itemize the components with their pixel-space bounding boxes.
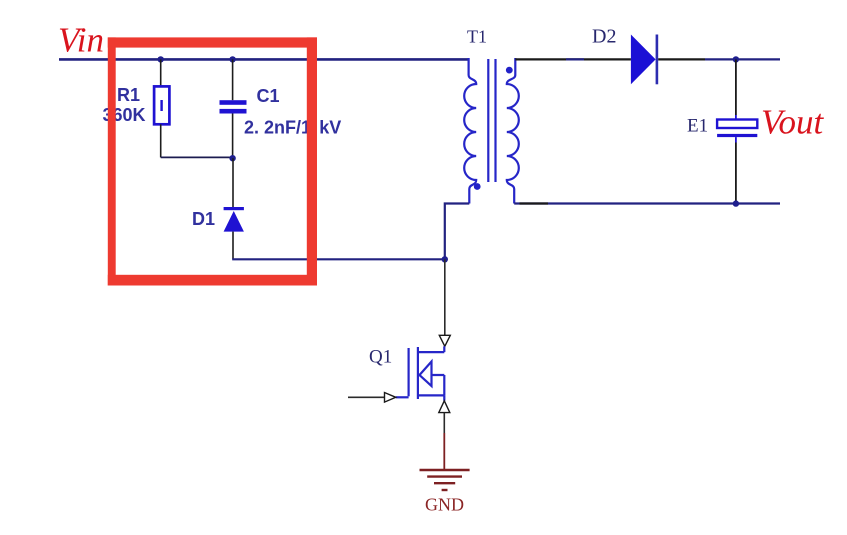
svg-text:D1: D1 — [192, 209, 215, 229]
wire: C1 top lead — [232, 59, 234, 100]
capacitor E1 — [717, 120, 757, 138]
resistor R1 — [154, 86, 169, 124]
wire: Vin top rail from left to transformer primary — [59, 58, 469, 61]
wire: R1 bottom lead — [160, 124, 162, 157]
wire: snubber bottom rail to drain node — [232, 258, 445, 260]
node: snubber mid node (R1/C1/D1) — [229, 155, 235, 161]
wire: R1 bottom to C1 bottom node — [161, 156, 233, 158]
node: output top node — [733, 56, 739, 62]
svg-text:Vout: Vout — [761, 103, 825, 142]
arrow: gate lead arrowhead (right) — [385, 393, 396, 403]
transformer T1 primary winding — [464, 58, 476, 204]
wire: C1 bottom lead — [232, 114, 234, 159]
wire: E1 bottom lead — [735, 137, 737, 142]
wire: output node down to E1 — [735, 59, 737, 115]
svg-text:T1: T1 — [467, 27, 487, 47]
svg-text:GND: GND — [425, 495, 464, 515]
transformer T1 secondary phase dot — [506, 67, 513, 74]
wire: secondary top to D2 anode — [515, 58, 631, 60]
wire: R1 top lead — [160, 59, 162, 86]
transformer T1 primary phase dot — [474, 183, 481, 190]
capacitor C1 — [220, 100, 247, 113]
svg-text:C1: C1 — [257, 86, 280, 106]
svg-text:R1: R1 — [117, 85, 140, 105]
node: drain node — [442, 256, 448, 262]
svg-text:Vin: Vin — [58, 21, 104, 60]
wire: D2 cathode to output node — [658, 58, 705, 60]
svg-text:2. 2nF/1: 2. 2nF/1 — [244, 118, 311, 138]
diode D1 — [224, 207, 244, 232]
wire: gate lead — [348, 396, 385, 398]
wire: D1 cathode lead — [232, 158, 234, 207]
diode D2 — [631, 35, 658, 85]
wire: primary bottom to drain vertical — [445, 204, 470, 260]
wire: D1 anode lead down — [232, 232, 234, 260]
transformer T1 core lines — [487, 59, 489, 182]
wire: source lead to ground — [443, 413, 445, 433]
transformer T1 secondary winding — [507, 58, 519, 204]
node: output bottom node — [733, 200, 739, 206]
highlight box (red rectangle around snubber) — [108, 37, 317, 285]
arrow: drain lead arrowhead (down) — [439, 335, 450, 346]
node: R1 top node — [158, 56, 164, 62]
wire: drain node down to Q1 drain arrow — [444, 259, 446, 335]
svg-text:D2: D2 — [592, 26, 616, 48]
arrow: source lead arrowhead (up) — [439, 401, 450, 413]
ground GND symbol — [420, 470, 470, 490]
svg-text:kV: kV — [319, 118, 341, 138]
transistor Q1 (N-MOSFET) — [396, 346, 445, 401]
wire: bottom output rail — [514, 202, 780, 204]
svg-text:Q1: Q1 — [369, 347, 392, 368]
node: C1 top node — [229, 56, 235, 62]
svg-text:E1: E1 — [687, 116, 708, 137]
